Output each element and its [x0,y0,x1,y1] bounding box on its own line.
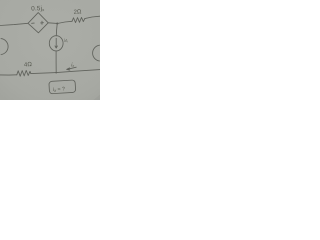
diamond minus sign [32,22,35,24]
current arrow ix on bottom wire [67,67,76,69]
node A junction dot [56,22,58,24]
svg-text:2Ω: 2Ω [73,9,82,16]
current source I1 circle [49,36,63,51]
voltage source V2 (right edge, cropped circle) [93,45,100,61]
wire current source to bottom node [55,51,57,73]
resistor R2 4ohm zigzag [17,70,31,76]
wire bottom node to right edge [56,70,100,73]
wire bottom-left edge to resistor 4ohm [0,74,17,76]
svg-text:4Ω: 4Ω [24,62,33,69]
answer box [49,80,76,94]
svg-text:0.5jx: 0.5jx [31,5,44,12]
wire node A down to current source [55,24,58,36]
voltage source V1 (left edge, cropped circle) [1,39,8,55]
wire node A to resistor 2ohm [57,21,72,23]
wire resistor to right edge [85,16,100,18]
wire 4ohm to bottom node [31,73,56,74]
paper background [0,0,100,100]
photo corner shade [94,95,101,101]
diamond plus sign [41,21,44,24]
svg-text:ix: ix [71,62,74,68]
current source arrow [55,38,57,48]
bottom node junction dot [55,72,57,74]
wire top-left [0,23,28,25]
wire diamond to node A [48,22,57,25]
dependent voltage source U1 (diamond) [28,13,48,33]
resistor R1 2ohm zigzag [72,17,85,22]
svg-text:ix = ?: ix = ? [53,86,65,93]
